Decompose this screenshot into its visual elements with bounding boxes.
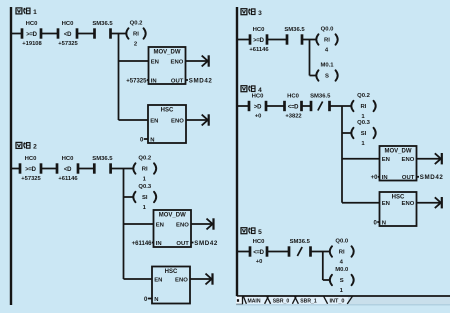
wire N5 branch to S coil bbox=[323, 279, 329, 281]
svg-text:MOV_DW: MOV_DW bbox=[159, 212, 186, 218]
tab bar top border bbox=[237, 295, 450, 297]
N2 MOV_DW IN operand +61146 bbox=[132, 241, 154, 247]
N1 MOV_DW IN operand +57325 bbox=[126, 78, 148, 84]
wire N5 contact2 to coil with junction bbox=[311, 251, 330, 253]
svg-text:>=D: >=D bbox=[26, 32, 37, 38]
svg-text:RI: RI bbox=[324, 38, 330, 44]
wire N2 rail to contact1 bbox=[11, 168, 20, 170]
coil N2 Q0.2 RI 1 bbox=[133, 156, 156, 183]
svg-text:<=D: <=D bbox=[253, 250, 264, 256]
svg-text:MOV_DW: MOV_DW bbox=[385, 148, 412, 154]
svg-text:+3822: +3822 bbox=[285, 113, 301, 119]
tab bar button divider bbox=[236, 297, 243, 305]
coil N3 M0.1 S bbox=[316, 63, 337, 81]
wire N4 contact2-contact3 bbox=[302, 105, 312, 107]
svg-text:HC0: HC0 bbox=[62, 156, 75, 162]
svg-text:SI: SI bbox=[361, 131, 367, 137]
svg-text:ENO: ENO bbox=[175, 277, 188, 283]
svg-text:<D: <D bbox=[64, 32, 72, 38]
svg-text:HC0: HC0 bbox=[253, 239, 266, 245]
svg-text:EN: EN bbox=[154, 277, 162, 283]
svg-text:IN: IN bbox=[156, 241, 162, 247]
network 1 label bbox=[16, 8, 37, 16]
box N2 MOV_DW bbox=[154, 210, 192, 247]
tab SBR_0 bbox=[273, 298, 290, 304]
coil N4 Q0.3 SI 1 bbox=[351, 120, 375, 147]
contact N1 SM36.5 bbox=[92, 21, 113, 39]
box N4 HSC bbox=[380, 192, 417, 226]
N1 HSC ENO output arrow bbox=[186, 114, 209, 125]
N4 MOV_DW IN operand +0 bbox=[371, 175, 380, 181]
network 2 label bbox=[16, 142, 37, 150]
N4 MOV_DW OUT operand SMD42 bbox=[417, 174, 444, 181]
svg-text:SI: SI bbox=[142, 195, 148, 201]
svg-text:SM36.5: SM36.5 bbox=[290, 239, 311, 245]
svg-text:RI: RI bbox=[142, 167, 148, 173]
wire N2 branch to HSC EN bbox=[124, 278, 153, 280]
N4 HSC ENO output arrow bbox=[417, 197, 442, 208]
wire N3 branch to S coil bbox=[310, 75, 316, 77]
svg-text:HC0: HC0 bbox=[62, 21, 75, 27]
svg-text:3: 3 bbox=[258, 10, 262, 17]
box N1 MOV_DW bbox=[149, 47, 186, 84]
wire N3 rail to contact1 bbox=[237, 39, 250, 41]
junction vertical wire N5 bbox=[322, 252, 324, 281]
svg-text:ENO: ENO bbox=[171, 118, 184, 124]
svg-text:OUT: OUT bbox=[176, 241, 189, 247]
svg-text:RI: RI bbox=[361, 104, 367, 110]
coil N5 M0.0 S 1 bbox=[330, 267, 354, 294]
svg-text:OUT: OUT bbox=[171, 78, 184, 84]
junction vertical wire N1 bbox=[118, 34, 120, 121]
svg-text:S: S bbox=[340, 278, 344, 284]
svg-text:S: S bbox=[325, 74, 329, 80]
junction vertical wire N4 bbox=[341, 106, 343, 203]
svg-text:Q0.0: Q0.0 bbox=[335, 239, 348, 245]
svg-text:Q0.2: Q0.2 bbox=[138, 156, 151, 162]
svg-text:Q0.3: Q0.3 bbox=[357, 120, 370, 126]
tab scroll button bbox=[236, 297, 242, 304]
wire N2 contact2-contact3 bbox=[78, 168, 94, 170]
svg-text:+57325: +57325 bbox=[126, 78, 147, 84]
junction vertical wire N2 bbox=[123, 169, 125, 280]
wire N3 contact2 to coil with junction bbox=[302, 39, 316, 41]
wire N4 branch to SI coil bbox=[342, 132, 351, 134]
tab INT_0 selected bbox=[330, 298, 345, 304]
box N2 HSC bbox=[152, 267, 190, 304]
N2 HSC ENO output arrow bbox=[190, 273, 213, 284]
svg-text:N: N bbox=[154, 297, 158, 303]
compare contact N4 HC0 <=D +3822 bbox=[285, 93, 302, 119]
N1 HSC N operand 0 bbox=[140, 137, 148, 143]
wire N1 rail to contact1 bbox=[11, 33, 22, 35]
tab INT_0 right slant bbox=[347, 296, 353, 304]
svg-text:SM36.5: SM36.5 bbox=[92, 156, 113, 162]
wire N1 contact3 to coil with junction bbox=[111, 33, 126, 35]
wire N4 contact3 to coil with junction bbox=[330, 105, 351, 107]
svg-text:ENO: ENO bbox=[402, 201, 415, 207]
coil N5 Q0.0 RI 4 bbox=[330, 239, 354, 266]
svg-text:EN: EN bbox=[151, 59, 159, 65]
svg-text:HSC: HSC bbox=[392, 194, 405, 200]
svg-text:<=D: <=D bbox=[288, 104, 299, 110]
svg-text:EN: EN bbox=[150, 118, 158, 124]
svg-text:HC0: HC0 bbox=[26, 21, 39, 27]
wire N2 branch to SI coil bbox=[124, 196, 133, 198]
svg-text:5: 5 bbox=[258, 229, 262, 236]
svg-text:+57325: +57325 bbox=[21, 176, 41, 182]
tab MAIN left slant bbox=[243, 296, 246, 304]
N2 HSC N operand 0 bbox=[144, 297, 152, 303]
svg-text:M0.0: M0.0 bbox=[335, 267, 349, 273]
svg-text:IN: IN bbox=[151, 78, 157, 84]
wire N2 contact3 to coil with junction bbox=[111, 168, 133, 170]
tab divider MAIN/SBR_0 bbox=[265, 296, 271, 304]
svg-text:SM36.5: SM36.5 bbox=[284, 27, 305, 33]
svg-text:HC0: HC0 bbox=[253, 27, 266, 33]
svg-text:RI: RI bbox=[133, 32, 139, 38]
svg-text:N: N bbox=[150, 137, 154, 143]
compare contact N3 HC0 >=D +61146 bbox=[249, 27, 269, 53]
network 5 label bbox=[241, 228, 262, 236]
svg-text:HSC: HSC bbox=[161, 107, 174, 113]
wire N1 contact1-contact2 bbox=[41, 33, 58, 35]
svg-text:RI: RI bbox=[339, 250, 345, 256]
svg-text:SBR_0: SBR_0 bbox=[273, 298, 290, 304]
N1 MOV_DW ENO output arrow bbox=[186, 55, 209, 66]
coil N2 Q0.3 SI 1 bbox=[133, 184, 156, 211]
right power rail bbox=[236, 7, 238, 296]
svg-text:SM36.5: SM36.5 bbox=[92, 21, 113, 27]
svg-text:+57325: +57325 bbox=[58, 41, 78, 47]
svg-text:>=D: >=D bbox=[253, 38, 264, 44]
tab SBR_1 bbox=[300, 298, 317, 304]
wire N1 branch to MOV_DW EN bbox=[119, 60, 149, 62]
svg-text:SBR_1: SBR_1 bbox=[300, 298, 317, 304]
compare contact N2 HC0 >=D +57325 bbox=[20, 156, 42, 182]
svg-text:+61146: +61146 bbox=[132, 241, 153, 247]
svg-text:HC0: HC0 bbox=[252, 93, 265, 99]
N4 HSC N operand 0 bbox=[373, 220, 379, 226]
box N1 HSC bbox=[148, 105, 186, 143]
wire N1 contact2-contact3 bbox=[77, 33, 95, 35]
svg-text:OUT: OUT bbox=[402, 175, 415, 181]
tab strip bottom shadow bbox=[236, 304, 450, 306]
svg-text:2: 2 bbox=[33, 144, 37, 151]
svg-text:1: 1 bbox=[33, 9, 37, 16]
left power rail bbox=[10, 7, 12, 305]
N2 MOV_DW OUT operand SMD42 bbox=[191, 240, 218, 247]
svg-text:MOV_DW: MOV_DW bbox=[154, 49, 181, 55]
svg-text:+0: +0 bbox=[256, 259, 263, 265]
svg-text:>=D: >=D bbox=[25, 167, 36, 173]
svg-text:SM36.5: SM36.5 bbox=[310, 93, 331, 99]
NC contact N5 SM36.5 bbox=[289, 239, 311, 257]
svg-text:M0.1: M0.1 bbox=[320, 63, 334, 69]
tab bar background strip bbox=[236, 296, 450, 304]
svg-text:>D: >D bbox=[254, 104, 262, 110]
svg-text:+19108: +19108 bbox=[22, 41, 42, 47]
svg-text:HSC: HSC bbox=[165, 269, 178, 275]
svg-text:Q0.0: Q0.0 bbox=[321, 27, 334, 33]
svg-text:EN: EN bbox=[382, 157, 390, 163]
contact N3 SM36.5 bbox=[284, 27, 305, 45]
compare contact N5 HC0 <=D +0 bbox=[250, 239, 267, 265]
svg-text:Q0.2: Q0.2 bbox=[357, 93, 370, 99]
svg-text:SMD42: SMD42 bbox=[420, 174, 444, 181]
wire N4 rail to contact1 bbox=[237, 105, 249, 107]
network 4 label bbox=[241, 86, 262, 94]
svg-text:SMD42: SMD42 bbox=[194, 240, 218, 247]
wire N4 branch to MOV_DW EN bbox=[342, 158, 380, 160]
svg-text:Q0.2: Q0.2 bbox=[130, 21, 143, 27]
svg-text:+0: +0 bbox=[255, 113, 262, 119]
svg-text:MAIN: MAIN bbox=[247, 298, 260, 304]
wire N4 branch to HSC EN bbox=[342, 202, 380, 204]
svg-text:SMD42: SMD42 bbox=[189, 77, 213, 84]
svg-text:ENO: ENO bbox=[171, 59, 184, 65]
contact N2 SM36.5 bbox=[92, 156, 113, 174]
tab divider SBR_0/SBR_1 bbox=[292, 296, 298, 304]
compare contact N1 HC0 >=D +19108 bbox=[22, 21, 43, 47]
svg-text:INT_0: INT_0 bbox=[330, 298, 345, 304]
wire N4 contact1-contact2 bbox=[266, 105, 285, 107]
svg-text:HC0: HC0 bbox=[287, 93, 300, 99]
wire N3 contact1-contact2 bbox=[267, 39, 287, 41]
box N4 MOV_DW bbox=[380, 146, 417, 181]
svg-text:+0: +0 bbox=[371, 175, 379, 181]
svg-text:ENO: ENO bbox=[176, 222, 189, 228]
N1 MOV_DW OUT operand SMD42 bbox=[186, 77, 213, 84]
svg-text:EN: EN bbox=[156, 222, 164, 228]
N4 MOV_DW ENO output arrow bbox=[417, 153, 442, 164]
wire N5 contact1-contact2 bbox=[267, 251, 289, 253]
wire N2 contact1-contact2 bbox=[41, 168, 57, 170]
svg-text:Q0.3: Q0.3 bbox=[138, 184, 151, 190]
svg-text:<D: <D bbox=[64, 167, 72, 173]
wire N1 branch to HSC EN bbox=[119, 119, 149, 121]
coil N3 Q0.0 RI 4 bbox=[316, 27, 337, 54]
compare contact N2 HC0 <D +61146 bbox=[57, 156, 78, 182]
compare contact N1 HC0 <D +57325 bbox=[58, 21, 79, 47]
coil N1 Q0.2 RI 2 bbox=[126, 21, 145, 48]
svg-text:HC0: HC0 bbox=[25, 156, 38, 162]
tab MAIN bbox=[247, 298, 260, 304]
NC contact N4 SM36.5 bbox=[310, 93, 331, 111]
wire N5 rail to contact1 bbox=[237, 251, 250, 253]
svg-text:EN: EN bbox=[382, 201, 390, 207]
svg-text:+61146: +61146 bbox=[58, 176, 78, 182]
wire N2 branch to MOV_DW EN bbox=[124, 223, 154, 225]
tab INT_0 left slant bbox=[324, 296, 328, 304]
compare contact N4 HC0 >D +0 bbox=[249, 93, 266, 119]
coil N4 Q0.2 RI 1 bbox=[351, 93, 375, 120]
junction vertical wire N3 bbox=[309, 40, 311, 76]
svg-text:IN: IN bbox=[382, 175, 388, 181]
svg-text:+61146: +61146 bbox=[249, 47, 269, 53]
network 3 label bbox=[241, 9, 262, 17]
svg-text:ENO: ENO bbox=[402, 157, 415, 163]
svg-text:N: N bbox=[382, 220, 386, 226]
N2 MOV_DW ENO output arrow bbox=[191, 218, 214, 229]
